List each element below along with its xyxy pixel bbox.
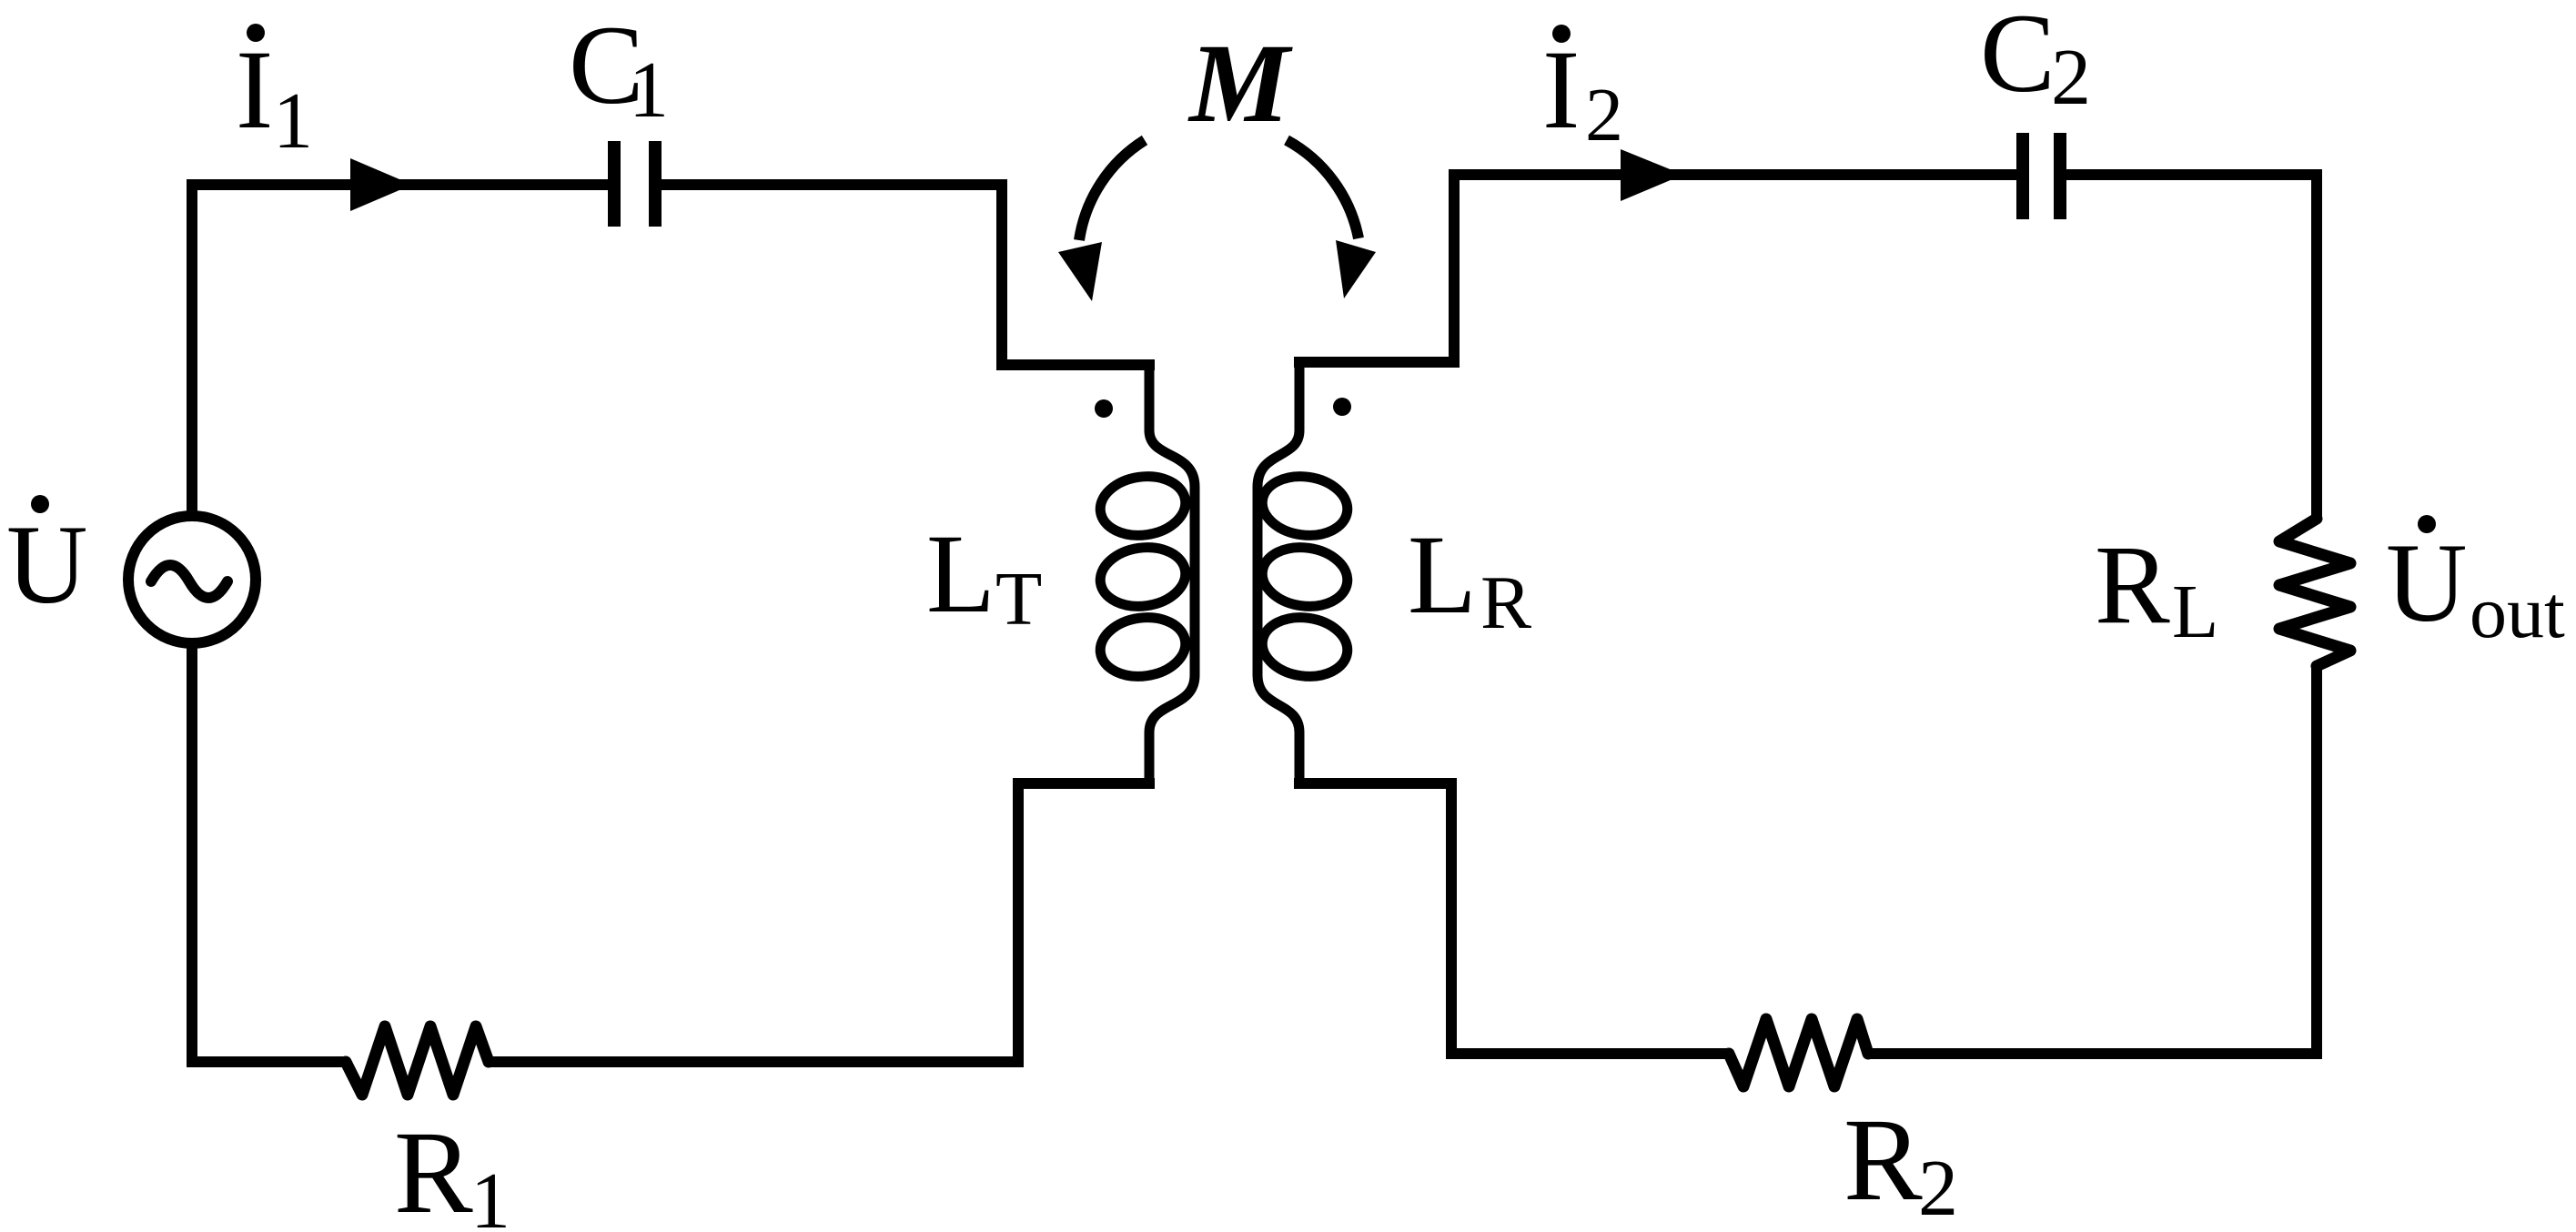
inductor LR coil [1258, 362, 1351, 789]
svg-text:I: I [1542, 27, 1580, 152]
wire left vertical bottom from source to bottom bus [192, 638, 346, 1062]
svg-text:L: L [1408, 512, 1477, 637]
polarity dot LR [1333, 398, 1351, 416]
svg-text:2: 2 [1585, 73, 1623, 157]
svg-text:1: 1 [470, 1157, 510, 1232]
mutual coupling arc right [1287, 140, 1359, 238]
svg-text:L: L [926, 511, 995, 636]
svg-text:U: U [2386, 520, 2468, 645]
resistor R2 zigzag [1729, 1019, 1868, 1086]
svg-text:C: C [1980, 0, 2056, 116]
AC source sine wave [151, 565, 227, 598]
label Uout [2386, 515, 2565, 653]
wire right vertical below RL to bottom-right bus [1866, 666, 2317, 1054]
mutual coupling arrowhead left [1058, 242, 1102, 301]
svg-text:M: M [1187, 21, 1293, 146]
wire from C2 to top-right corner and down right side [2066, 175, 2317, 519]
wire bottom bus from R1 to left step up to coil bottom [488, 783, 1155, 1062]
svg-text:1: 1 [273, 77, 313, 166]
svg-text:R: R [1844, 1095, 1923, 1226]
current arrow I2 [1621, 149, 1683, 201]
label C2 [1980, 0, 2091, 122]
svg-text:2: 2 [1918, 1145, 1958, 1232]
wire left vertical top + top-left horizontal to C1 [192, 185, 608, 521]
capacitor C2 plates [2023, 133, 2060, 219]
svg-text:I: I [236, 27, 273, 152]
svg-text:L: L [2172, 570, 2218, 654]
AC source U circle [128, 516, 256, 643]
current arrow I1 [350, 158, 412, 211]
wire right loop: step horizontal, vertical up, top wire to C2 [1294, 175, 2016, 362]
mutual coupling arrowhead right [1336, 240, 1376, 298]
label LT [926, 511, 1042, 641]
label I1 [236, 24, 313, 166]
inductor LT coil [1096, 365, 1195, 789]
svg-text:2: 2 [2051, 34, 2091, 122]
label R1 [394, 1107, 510, 1232]
label C1 [569, 3, 669, 135]
wire bottom-right bus from R2 to right step up to coil bottom [1294, 783, 1729, 1054]
label I2 [1542, 25, 1623, 157]
resistor RL zigzag vertical [2279, 519, 2350, 666]
svg-text:T: T [995, 557, 1042, 641]
label RL [2095, 522, 2218, 654]
label R2 [1844, 1095, 1958, 1232]
svg-text:R: R [2095, 522, 2170, 647]
resistor R1 zigzag [346, 1026, 489, 1095]
mutual coupling arc left [1079, 140, 1145, 240]
label LR [1408, 512, 1531, 645]
label U source [6, 495, 88, 627]
svg-text:1: 1 [629, 46, 669, 135]
svg-text:R: R [394, 1107, 473, 1232]
svg-text:R: R [1480, 560, 1531, 645]
svg-text:U: U [6, 502, 88, 627]
polarity dot LT [1095, 399, 1113, 418]
wire from C1 to step corner and into coil top lead [662, 185, 1155, 365]
svg-text:out: out [2470, 571, 2565, 653]
capacitor C1 plates [614, 141, 655, 227]
